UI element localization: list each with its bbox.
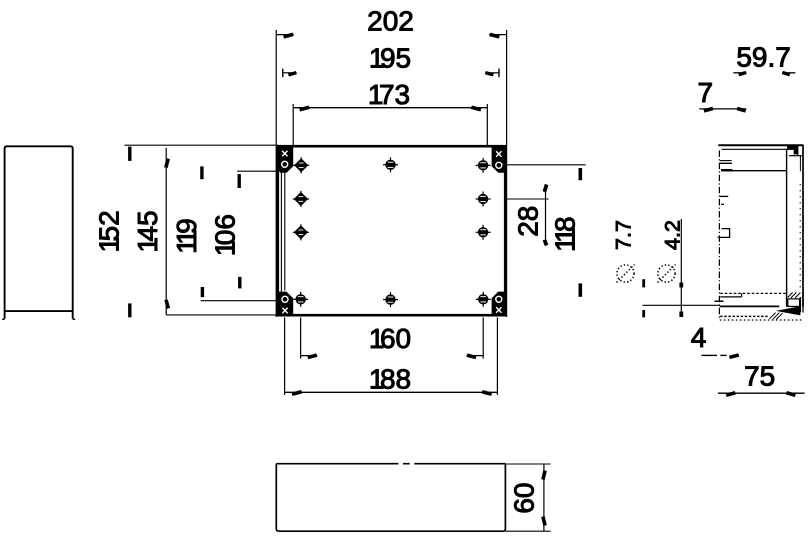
dim 173 ext left [292, 104, 294, 146]
left view foot right [73, 318, 75, 321]
screw cross BL [282, 308, 287, 313]
dim 160 stub right [467, 355, 484, 357]
left view lid seam [5, 310, 73, 312]
right view dotted inner wall (lower) [799, 184, 801, 291]
leader mid-left lower (119/106 ref) [201, 300, 279, 302]
dim 75 arrow right [786, 393, 795, 395]
main view inner wall line 2 (left) [284, 172, 286, 291]
callout dia 4.2 arrow upper [679, 283, 683, 288]
extension line right (202 side) [506, 30, 508, 317]
callout dia 4.2 arrow lower [679, 312, 683, 318]
svg-text:28: 28 [513, 206, 544, 237]
dim 75 line [718, 392, 805, 394]
dim 173 arrow left [300, 107, 310, 110]
svg-text:152: 152 [94, 210, 125, 252]
dim 202 arrow right [490, 34, 500, 37]
dim 195 arrow left [288, 73, 296, 75]
dim 160 ext right [482, 318, 484, 359]
left view foot left [2, 318, 4, 321]
dim 119 tick top [200, 166, 203, 179]
leader right row1 [507, 164, 586, 166]
main view outer box [278, 146, 505, 315]
right view hatch bottom-left of pointer [769, 313, 782, 320]
dim 195 stub left [283, 72, 297, 74]
right view lid top line [718, 144, 803, 146]
svg-text:106: 106 [210, 214, 241, 256]
svg-text:59.7: 59.7 [736, 42, 791, 73]
callout dia 4.2 leader line [680, 219, 682, 316]
right view left dot [721, 203, 724, 205]
right view lid step horizontal [789, 155, 803, 157]
dim 188 arrow right [482, 392, 492, 395]
callout dia 7.7 leader dash upper [642, 279, 645, 287]
right view flange white pocket [788, 299, 800, 307]
boss hole right row3 [476, 225, 491, 240]
dim 7 line [699, 108, 746, 110]
svg-text:4: 4 [691, 322, 707, 353]
right view lid seam [723, 170, 786, 172]
right view left tick a [720, 160, 732, 162]
right view clamp notch (black) [787, 146, 798, 155]
corner hole circle TL [282, 161, 288, 167]
diamond knockout row2 left [293, 191, 309, 207]
dim 4 arrow [729, 355, 738, 357]
dim 28 arrow top [544, 185, 546, 192]
dim 195 stub right [485, 72, 499, 74]
dim 106 tick top [237, 174, 240, 188]
right view boss pocket bracket [718, 229, 730, 238]
leader bottom-left of main view [166, 314, 278, 316]
corner hole circle BL [282, 296, 288, 302]
svg-text:195: 195 [369, 42, 411, 73]
dim 28 arrow bottom [544, 240, 546, 246]
dim 160 ext left [300, 318, 302, 359]
svg-text:118: 118 [549, 216, 580, 252]
right view wall inner line [786, 150, 788, 307]
dim 202 arrow left [284, 34, 294, 37]
diamond knockout row3 left [293, 224, 309, 240]
dim 195 tick right [498, 69, 500, 78]
dim 7 arrow right [737, 109, 746, 111]
flange hole leader horizontal [643, 304, 720, 306]
callout dia 4.2 symbol (dotted) [658, 265, 676, 283]
right view flange step line [720, 296, 741, 298]
dim 59.7 arrow right [782, 73, 789, 75]
boss hole top middle [383, 157, 398, 172]
dim 106 tick bottom [238, 277, 241, 289]
left view body outline [5, 146, 73, 318]
right view flange bottom dashed line [720, 315, 768, 317]
right view inner right edge (lid) [799, 156, 801, 171]
boss hole right row1 [476, 158, 491, 173]
right view lid inner top line [722, 148, 798, 150]
dim 145 arrow bottom [166, 300, 168, 309]
dim 119 tick bottom [201, 287, 204, 297]
dim 28 line [545, 184, 547, 246]
svg-text:145: 145 [132, 210, 163, 252]
dim 160 arrow right [467, 355, 476, 357]
svg-text:119: 119 [171, 218, 202, 254]
right view flange hidden top line (dashed) [720, 292, 786, 294]
dim 173 arrow right [471, 107, 481, 110]
right view left tick b [720, 162, 732, 164]
boss hole bottom right [476, 292, 491, 307]
right view outer right edge [802, 145, 804, 306]
dim 188 arrow left [292, 392, 302, 395]
right view flange top solid line [720, 305, 780, 307]
boss hole right row2 [476, 192, 491, 207]
right view hidden left edge (dash-dot) [718, 151, 720, 320]
dim 118 tick top [578, 168, 582, 180]
corner hole circle TR [496, 162, 502, 168]
dim 160 arrow left [308, 355, 317, 357]
right view lid step vertical [797, 149, 799, 155]
right view hatch top-right [788, 292, 801, 298]
leader top-left of main view [125, 144, 278, 146]
dim 145 arrow top [166, 159, 168, 168]
dim 118 tick bottom [578, 283, 582, 296]
svg-text:60: 60 [509, 483, 540, 514]
right view flange outer right edge [802, 292, 804, 312]
dim 152 tick top [128, 147, 131, 161]
right view flange right vertical [799, 297, 801, 312]
boss hole bottom left [293, 292, 308, 307]
callout dia 7.7 leader dash lower [642, 310, 645, 317]
corner screw pocket TL [279, 147, 293, 173]
svg-text:202: 202 [367, 6, 414, 37]
callout dia 7.7 symbol (dotted) [617, 265, 635, 283]
svg-text:173: 173 [368, 79, 410, 110]
extension line left (202/188 side) [275, 30, 277, 317]
dim 202 stub right [489, 34, 506, 36]
dim 173 line [293, 107, 487, 109]
boss hole bottom middle [383, 292, 398, 307]
diamond knockout row1 left [293, 157, 309, 173]
dim 188 ext right [496, 318, 498, 395]
dim 7 arrow left [704, 109, 713, 111]
dim 60 arrow top [543, 471, 545, 480]
dim 160 stub left [301, 355, 318, 357]
dim 4 dash b [720, 354, 726, 356]
dim 75 arrow left [726, 393, 735, 395]
right view flange step tick [741, 293, 743, 297]
dim 60 leader bottom [505, 530, 550, 532]
leader mid-left upper (106 ref) [237, 170, 279, 172]
dim 4 dash a [702, 354, 718, 356]
right view flange pointer (black triangle) [776, 306, 801, 315]
right view bottom dotted edge [720, 319, 803, 321]
dim 59.7 arrow left [739, 73, 746, 75]
dim 202 stub left [276, 34, 293, 36]
dim 152 tick bottom [128, 303, 131, 317]
svg-text:188: 188 [369, 364, 411, 395]
dim 188 line [285, 391, 498, 393]
bottom view outline [276, 464, 505, 532]
corner screw pocket BL [279, 292, 293, 317]
flange step tick left [715, 300, 724, 302]
leader right row2 [507, 198, 549, 200]
svg-text:160: 160 [369, 323, 411, 354]
dim 60 leader top [505, 463, 550, 465]
main view inner wall line 1 (left) [280, 148, 282, 315]
corner hole circle BR [496, 296, 502, 302]
dim 145 line [165, 148, 167, 315]
screw cross BR [496, 307, 501, 312]
right view left thick tick c [721, 169, 732, 171]
svg-text:75: 75 [744, 360, 775, 391]
screw cross TL [282, 151, 287, 156]
svg-text:7: 7 [698, 77, 714, 108]
corner screw pocket BR [492, 292, 505, 317]
dim 59.7 stub right [782, 72, 795, 74]
dim 195 tick left [282, 69, 284, 78]
dim 59.7 stub left [733, 72, 746, 74]
screw cross TR [496, 151, 501, 156]
dim 195 arrow right [485, 73, 493, 75]
corner screw pocket TR [492, 147, 505, 173]
dim 188 ext left [284, 318, 286, 395]
svg-text:7.7: 7.7 [612, 220, 636, 250]
right view left tick d [720, 195, 728, 197]
dim 60 line [543, 464, 545, 531]
dim 173 ext right [486, 104, 488, 146]
dim 60 arrow bottom [543, 517, 545, 526]
